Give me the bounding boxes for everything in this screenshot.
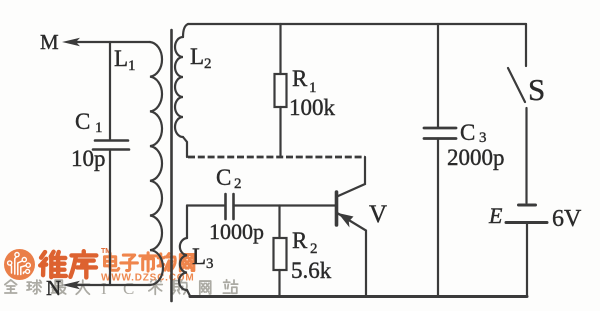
svg-text:3: 3 xyxy=(479,130,487,146)
wire: L3 to C2 xyxy=(187,204,224,206)
svg-text:S: S xyxy=(528,72,545,107)
label 2000p xyxy=(447,145,505,170)
label L2 xyxy=(190,44,212,72)
battery E xyxy=(506,205,547,223)
wire: R1 to dashed line xyxy=(279,107,281,156)
svg-text:6V: 6V xyxy=(552,206,582,232)
label 1000p xyxy=(209,219,264,244)
svg-text:1: 1 xyxy=(128,58,136,74)
wire: bottom rail xyxy=(190,295,527,298)
svg-text:2: 2 xyxy=(204,56,212,72)
capacitor C1 xyxy=(93,141,129,150)
label 6V xyxy=(552,206,582,232)
维库 big orange characters xyxy=(40,251,96,277)
svg-text:C: C xyxy=(123,279,134,298)
wire: C2 to transistor base xyxy=(234,204,336,206)
label E xyxy=(488,203,503,228)
node M xyxy=(40,30,59,54)
svg-text:100k: 100k xyxy=(289,95,336,120)
svg-text:C: C xyxy=(75,109,90,134)
svg-text:2000p: 2000p xyxy=(447,145,505,170)
svg-text:L: L xyxy=(192,244,206,269)
svg-text:10p: 10p xyxy=(71,146,106,171)
wire: R2 branch from base line xyxy=(278,206,280,239)
wire: top rail from L2 top to switch branch xyxy=(188,23,526,25)
switch S xyxy=(508,68,525,102)
svg-text:I: I xyxy=(101,279,107,298)
svg-text:L: L xyxy=(190,44,204,69)
svg-text:M: M xyxy=(40,30,59,54)
wire: switch to battery xyxy=(525,108,527,203)
gray I C letters xyxy=(101,279,134,298)
watermark xyxy=(4,248,238,298)
label R2 xyxy=(292,228,318,257)
label L3 xyxy=(192,244,214,272)
label S xyxy=(528,72,545,107)
label R1 xyxy=(292,66,317,96)
电子市场网 orange characters xyxy=(105,253,194,271)
inductor L2 xyxy=(175,24,188,157)
svg-text:V: V xyxy=(369,201,387,228)
wire: battery to bottom rail xyxy=(526,224,528,296)
label L1 xyxy=(114,46,136,74)
wire: C3 to bottom rail xyxy=(437,139,439,297)
WWW.DZSC.COM xyxy=(101,273,194,284)
label C1 xyxy=(75,109,103,136)
svg-text:2: 2 xyxy=(234,176,242,192)
svg-text:3: 3 xyxy=(206,256,214,272)
TM mark xyxy=(101,248,111,255)
wire: dashed feedback line from L2 bottom to collector xyxy=(188,156,365,159)
svg-text:R: R xyxy=(292,66,308,91)
wire: lead N with arrow xyxy=(62,281,150,289)
inductor L1 xyxy=(150,42,163,285)
gray slogan 全球最大IC采购网站 xyxy=(5,280,238,295)
svg-text:R: R xyxy=(292,228,308,253)
label V xyxy=(369,201,387,228)
svg-text:E: E xyxy=(488,203,503,228)
svg-text:1: 1 xyxy=(309,80,317,96)
node N xyxy=(46,276,61,300)
transistor V xyxy=(337,157,367,296)
transformer core xyxy=(170,30,173,301)
resistor R1 xyxy=(275,74,287,107)
label C2 xyxy=(216,165,242,192)
svg-text:C: C xyxy=(460,120,475,145)
label 5.6k xyxy=(291,258,332,283)
wire: C3 branch from top rail xyxy=(437,24,439,127)
resistor R2 xyxy=(274,238,287,270)
wire: C1 branch vertical top xyxy=(109,42,111,140)
wire: antenna lead M with arrow xyxy=(62,38,150,46)
capacitor C3 xyxy=(424,128,456,139)
svg-text:2: 2 xyxy=(310,241,318,257)
label 10p xyxy=(71,146,106,171)
label 100k xyxy=(289,95,336,120)
capacitor C2 xyxy=(226,194,234,219)
wire: R1 branch from top rail xyxy=(279,24,281,74)
svg-text:C: C xyxy=(216,165,231,190)
logo circle xyxy=(4,249,35,280)
svg-text:L: L xyxy=(114,46,128,71)
wire: R2 to bottom rail xyxy=(278,270,280,296)
svg-text:1: 1 xyxy=(95,120,103,136)
svg-text:5.6k: 5.6k xyxy=(291,258,332,283)
wire: C1 branch vertical bottom xyxy=(109,150,111,286)
svg-text:N: N xyxy=(46,276,61,300)
label C3 xyxy=(460,120,487,146)
svg-text:1000p: 1000p xyxy=(209,219,264,244)
inductor L3 xyxy=(179,206,190,297)
wire: switch branch upper xyxy=(525,24,527,66)
